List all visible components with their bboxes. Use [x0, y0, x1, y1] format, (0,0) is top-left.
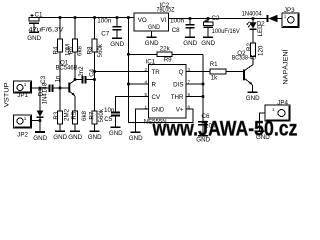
svg-text:1n: 1n	[55, 75, 62, 82]
ground R7	[88, 131, 102, 141]
svg-text:1: 1	[284, 13, 287, 18]
ground C1	[27, 32, 41, 42]
svg-text:R7: R7	[88, 111, 95, 119]
wire R6 top	[74, 18, 76, 40]
capacitor C1 47uF/6.3V	[28, 11, 64, 33]
resistor R2 120	[246, 43, 265, 57]
svg-text:R: R	[152, 82, 157, 89]
svg-text:VI: VI	[161, 17, 167, 24]
svg-text:1k: 1k	[211, 75, 218, 82]
watermark www.JAWA-50.cz	[152, 116, 298, 140]
svg-text:IC1: IC1	[146, 59, 156, 66]
svg-text:BC546B: BC546B	[56, 64, 78, 71]
ground Q2	[246, 92, 260, 102]
wire JP4 to ground	[260, 113, 266, 131]
wire DIS stub	[186, 83, 203, 85]
svg-text:GND: GND	[201, 40, 215, 47]
svg-text:C2: C2	[212, 15, 220, 22]
svg-text:BC338-40: BC338-40	[232, 54, 256, 61]
capacitor C7 100n	[97, 18, 121, 39]
svg-text:560k: 560k	[98, 108, 105, 122]
node rail-LED junction	[252, 17, 255, 20]
svg-text:V+: V+	[176, 107, 184, 114]
wire DIS-THR-C6 column	[202, 84, 204, 121]
svg-text:R3: R3	[53, 111, 60, 119]
LED D2	[247, 19, 266, 37]
svg-text:DIS: DIS	[173, 82, 183, 89]
svg-text:GND: GND	[129, 135, 143, 142]
svg-text:GND: GND	[27, 35, 41, 42]
connector JP4	[265, 99, 290, 121]
svg-text:GND: GND	[68, 134, 82, 141]
wire R8 bottom column	[94, 52, 96, 111]
svg-text:R8: R8	[86, 46, 93, 54]
svg-text:1: 1	[24, 82, 27, 87]
resistor R5 6k8	[71, 110, 88, 124]
svg-text:100n: 100n	[97, 18, 112, 25]
diode D1 1N4148	[37, 82, 49, 132]
svg-text:THR: THR	[171, 94, 184, 101]
ground C6	[196, 136, 210, 144]
svg-text:100n: 100n	[170, 18, 185, 25]
diode D3 1N4004	[242, 11, 282, 23]
svg-text:JP3: JP3	[284, 7, 295, 14]
svg-text:GND: GND	[148, 24, 160, 31]
node input-D1 junction	[39, 87, 42, 90]
transistor Q1 BC546B	[56, 60, 78, 111]
svg-text:JP1: JP1	[17, 92, 28, 99]
svg-text:10n: 10n	[104, 107, 115, 114]
svg-text:C6: C6	[202, 113, 210, 120]
ground D1	[33, 132, 47, 142]
svg-text:GND: GND	[110, 41, 124, 48]
wire R4 top	[59, 18, 61, 40]
node rail-R8 junction	[93, 16, 96, 19]
connector JP2	[14, 115, 32, 139]
wire R8 top	[94, 18, 96, 40]
svg-text:NAPÁJENÍ: NAPÁJENÍ	[283, 49, 290, 84]
capacitor C8 100n	[170, 18, 195, 38]
svg-text:R6: R6	[67, 46, 74, 54]
svg-text:1: 1	[24, 116, 27, 121]
node base-R4-R3 junction	[59, 87, 62, 90]
wire Q output to R1	[186, 71, 210, 73]
svg-text:GND: GND	[109, 130, 123, 137]
voltage regulator IC2 78L05Z	[134, 2, 175, 37]
wire CV to C5	[116, 97, 149, 113]
connector JP3	[282, 7, 299, 28]
transistor Q2 BC338-40	[232, 50, 256, 92]
svg-text:R1: R1	[210, 61, 218, 68]
capacitor C6 10n	[198, 113, 216, 136]
svg-text:GND: GND	[53, 134, 67, 141]
wire R6 bottom to collector node	[74, 52, 76, 80]
node reset-pin4 junction	[127, 83, 130, 86]
svg-text:VO: VO	[138, 17, 147, 24]
wire C4 right	[86, 79, 95, 81]
wire C4 left	[75, 79, 82, 81]
svg-text:1N4004: 1N4004	[242, 11, 263, 18]
wire R5 bottom	[74, 124, 76, 131]
svg-text:NE555N: NE555N	[144, 119, 167, 126]
svg-text:CV: CV	[152, 94, 161, 101]
wire R4 bottom to base node	[59, 52, 61, 111]
ground R3	[53, 131, 67, 141]
ground IC2	[145, 37, 159, 47]
svg-text:8: 8	[188, 104, 191, 109]
node rail-C7 junction	[116, 16, 119, 19]
svg-text:JP4: JP4	[277, 99, 288, 106]
ground IC1	[129, 132, 143, 142]
svg-text:C5: C5	[104, 116, 112, 123]
svg-text:560k: 560k	[97, 43, 104, 57]
svg-text:C3: C3	[40, 75, 47, 83]
svg-text:GND: GND	[246, 95, 260, 102]
ground C2	[201, 37, 215, 47]
capacitor C5 10n	[104, 107, 120, 127]
svg-text:Q: Q	[179, 69, 184, 76]
wire C3 to Q1 base	[53, 87, 69, 89]
svg-text:GND: GND	[33, 135, 47, 142]
resistor R1 1k	[210, 61, 226, 81]
node C4-R8 junction	[93, 78, 96, 81]
wire LED to R2	[252, 29, 254, 43]
resistor R4 10M	[52, 39, 71, 56]
wire R1 to Q2 base	[226, 71, 243, 73]
node rail-C8 junction	[189, 17, 192, 20]
svg-text:C8: C8	[172, 27, 180, 34]
wire JP1 to C3	[32, 87, 50, 89]
svg-text:1: 1	[272, 107, 275, 112]
svg-text:C4: C4	[89, 68, 96, 76]
capacitor C2 100uF/16V	[204, 15, 241, 37]
wire R2 to Q2 collector	[245, 57, 253, 71]
capacitor C3 1n	[40, 75, 62, 92]
svg-text:R4: R4	[52, 46, 59, 54]
wire reset column from rail	[127, 18, 129, 85]
svg-text:TR: TR	[152, 69, 161, 76]
ground C8	[183, 37, 197, 47]
wire THR stub	[186, 96, 203, 98]
resistor R9 22k	[128, 46, 203, 84]
svg-text:6k8: 6k8	[81, 110, 88, 121]
resistor R7 560k	[88, 108, 105, 124]
resistor R6 6k8	[67, 39, 83, 56]
node rail-R6 junction	[74, 16, 77, 19]
wire R3 bottom	[59, 124, 61, 131]
svg-text:VSTUP: VSTUP	[3, 82, 10, 107]
svg-text:R5: R5	[71, 111, 78, 119]
wire pin4 stub	[128, 83, 148, 85]
node collector-C4 junction	[74, 78, 77, 81]
svg-text:GND: GND	[183, 40, 197, 47]
wire R7 bottom	[94, 124, 96, 131]
connector JP1	[14, 81, 32, 99]
svg-text:6k8: 6k8	[77, 45, 84, 56]
svg-text:22k: 22k	[160, 46, 171, 53]
svg-text:GND: GND	[196, 137, 210, 143]
node D1-JP2 junction	[39, 119, 42, 122]
resistor R8 560k	[86, 39, 104, 58]
node rail-R4 junction	[59, 16, 62, 19]
svg-text:C7: C7	[101, 30, 109, 37]
svg-text:2M2: 2M2	[64, 108, 71, 121]
svg-text:1N4148: 1N4148	[41, 82, 48, 104]
svg-text:R2: R2	[246, 43, 253, 51]
svg-text:GND: GND	[145, 40, 159, 47]
svg-text:120: 120	[258, 45, 265, 56]
resistor R3 2M2	[53, 108, 71, 124]
svg-text:GND: GND	[256, 134, 270, 141]
svg-text:JP2: JP2	[17, 132, 28, 139]
svg-text:78L05Z: 78L05Z	[157, 7, 175, 14]
node THR junction	[202, 95, 205, 98]
ground C5	[109, 127, 123, 137]
wire V+ routing under IC1	[128, 84, 193, 123]
svg-text:R9: R9	[164, 57, 172, 64]
svg-text:4: 4	[144, 79, 147, 84]
wire 12V rail right	[169, 18, 268, 20]
svg-text:2n2: 2n2	[78, 66, 85, 77]
node reset-R9 junction	[127, 53, 130, 56]
wire 5V rail left	[34, 17, 134, 19]
ground C7	[110, 38, 124, 48]
wire TR input	[95, 71, 149, 73]
svg-text:100uF/16V: 100uF/16V	[212, 28, 241, 35]
svg-text:GND: GND	[88, 134, 102, 141]
node DIS junction	[202, 83, 205, 86]
ground R5	[68, 131, 82, 141]
wire GND pin 1 stub	[136, 109, 149, 132]
node rail-reset junction	[127, 16, 130, 19]
capacitor C4 2n2	[78, 66, 96, 84]
svg-text:GND: GND	[152, 107, 165, 114]
svg-text:C1: C1	[35, 11, 43, 18]
node rail-C2 junction	[207, 17, 210, 20]
svg-text:10n: 10n	[205, 123, 216, 130]
wire JP2 to D1	[32, 120, 41, 122]
timer IC1 NE555N	[144, 59, 186, 126]
ground JP4	[255, 131, 271, 141]
node TR-R8 junction	[93, 70, 96, 73]
svg-text:LED: LED	[257, 24, 264, 37]
